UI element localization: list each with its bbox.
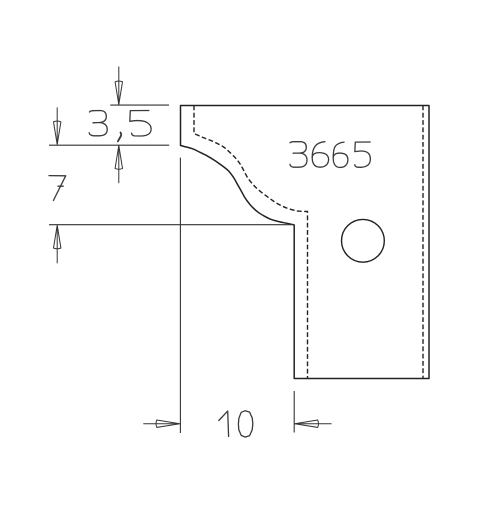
- arrow left tip x294: [295, 420, 332, 427]
- dimension line y105: [110, 104, 169, 106]
- arrow up tip y145 at x118.8: [115, 146, 122, 184]
- dimension line y225: [49, 224, 294, 226]
- text 3665: [290, 142, 370, 168]
- text 10: [219, 411, 253, 437]
- bore circle: [342, 219, 385, 262]
- dashed cutter-body line right: [422, 106, 424, 379]
- arrow down tip y145 at x57.2: [54, 107, 61, 144]
- extension line x180: [179, 158, 181, 433]
- arrow up tip y225 at x57.2: [54, 225, 61, 263]
- arrow down tip y105: [115, 67, 122, 105]
- digit 6 first: [312, 142, 328, 168]
- dimension line y145: [49, 144, 169, 146]
- comma of 3,5: [118, 133, 121, 142]
- digit 3: [290, 142, 307, 168]
- text 7: [49, 176, 66, 201]
- arrow right tip x180: [143, 420, 180, 427]
- extension line x294: [293, 391, 295, 433]
- dashed cutter-body line left: [194, 106, 308, 379]
- digit 6 second: [333, 142, 348, 167]
- digit 1: [219, 411, 229, 436]
- digit 5 of 3,5: [130, 111, 151, 137]
- digit 5: [355, 142, 371, 167]
- text 3,5: [89, 111, 151, 142]
- digit 3 of 3,5: [89, 111, 107, 136]
- profile outline 3665 body: [181, 106, 430, 379]
- digit 0: [238, 411, 252, 437]
